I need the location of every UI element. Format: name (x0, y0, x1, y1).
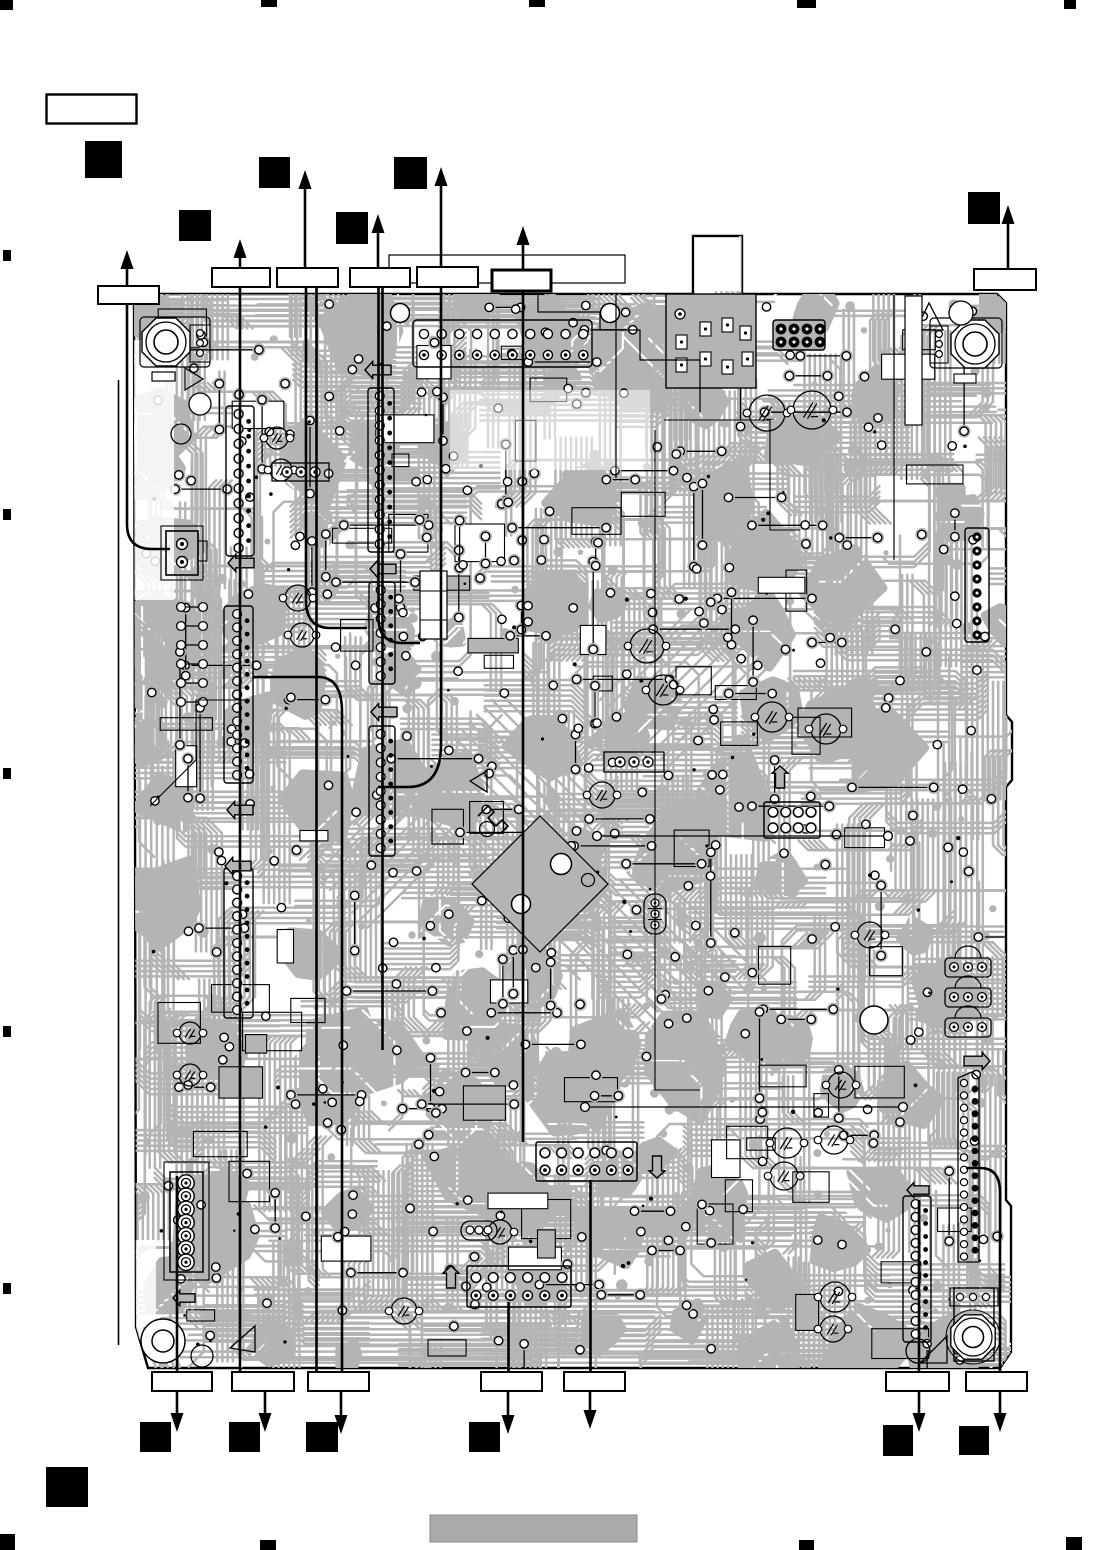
capacitor C17 (814, 1316, 852, 1342)
leader arrow up T5 (435, 167, 448, 267)
block arrow 8 (907, 1183, 929, 1198)
crop mark left-1 (3, 250, 11, 261)
callout box T7 (974, 269, 1036, 290)
pointer line T2 to B2 (239, 287, 242, 1372)
block arrow 9 (964, 1053, 990, 1070)
callout box B5 (564, 1372, 625, 1391)
IC U1 (rotated QFP) (472, 816, 608, 952)
block arrow 6 (365, 362, 391, 379)
callout box B2 (232, 1372, 294, 1391)
copper pour regions (98, 285, 1018, 1395)
hole bottom-right (906, 1339, 930, 1363)
connector CN10 (12p) (467, 1266, 571, 1307)
crop mark top-4 (797, 0, 816, 8)
connector CN201 (8p) (773, 320, 825, 350)
screw hole pad bottom-right (RCA jack) (946, 1288, 1000, 1364)
connector CN21 (3p dome) (945, 976, 991, 1007)
keepout rectangle right-center (905, 296, 922, 425)
capacitor C16 (814, 1282, 856, 1312)
connector CN12 right (903, 1196, 931, 1342)
corner hatch bottom-left (144, 1327, 180, 1368)
pad matrix left (177, 603, 208, 707)
crystal X1 (420, 571, 447, 639)
callout box T4 (350, 268, 410, 287)
leader arrow down B4 (502, 1391, 515, 1434)
block arrow 7 (173, 1291, 195, 1306)
crop mark bottom-4 (1066, 1537, 1082, 1550)
alignment square B1 (140, 1422, 171, 1452)
net boundary line 4 (664, 420, 800, 530)
board margin clear areas (134, 340, 650, 1340)
leader arrow up T6 (517, 226, 530, 270)
through-hole pad pairs (168, 301, 1026, 1429)
connector CN16 (3p vertical oval) (644, 894, 666, 934)
capacitor C2 (787, 391, 837, 429)
hole top-right (949, 301, 973, 325)
capacitor C22 (482, 1220, 518, 1244)
leader arrow down B6 (913, 1391, 926, 1432)
board outline (134, 236, 1012, 1368)
small diamond pad (542, 790, 562, 810)
connector CN105 (224, 868, 253, 1018)
connector CN9 (7p power) (164, 1162, 209, 1280)
capacitor C14 (814, 1126, 854, 1154)
pointer line T3a to CN4 (306, 287, 367, 628)
connector CN101 (2p) (161, 526, 207, 580)
capacitor C21 (822, 1072, 860, 1098)
clearance traces in pours (27, 240, 1120, 1425)
title box (empty) (47, 95, 137, 124)
connector CN8 (12p) (536, 1142, 637, 1181)
capacitor C13 (766, 1128, 808, 1158)
callout box B3 (308, 1372, 369, 1391)
callout box B1 (152, 1372, 212, 1391)
callout box T6 (492, 270, 551, 291)
connector CN13 (3p) (272, 463, 329, 481)
callout box T3 (277, 268, 338, 287)
connector CN4 (369, 582, 395, 684)
capacitor C12 (264, 459, 298, 481)
mounting hole mid-right (860, 1006, 888, 1034)
pointer triangle top-left (185, 368, 203, 390)
alignment square A1 (85, 141, 122, 178)
connector CN20 (3p dome) (945, 946, 991, 977)
pointer line B7 (966, 1168, 1000, 1372)
crop mark left-5 (3, 1283, 11, 1294)
crop mark top-5 (1064, 0, 1076, 9)
connector CN22 (3p dome) (945, 1006, 991, 1037)
pointer triangle bottom-left (230, 1326, 255, 1352)
block arrow 5 (371, 704, 397, 721)
pointer line T3b (315, 287, 318, 1372)
capacitor C7 (173, 1022, 207, 1044)
pointer line B3b (253, 677, 342, 1372)
leader arrow up T3 (299, 170, 312, 268)
crop mark top-2 (261, 0, 277, 7)
net boundary line 1 (538, 295, 700, 412)
net boundary line 6 (655, 430, 700, 1090)
silkscreen bar top-left (152, 372, 175, 381)
alignment square B4 (469, 1422, 500, 1452)
net boundary line 3 (615, 295, 617, 478)
callout box B7 (966, 1372, 1027, 1391)
capacitor C10 (284, 623, 320, 647)
alignment square B3 (306, 1422, 338, 1452)
block arrow 2 (227, 802, 253, 819)
callout box T5 (417, 267, 478, 287)
pointer line B5 to CN8 (589, 1180, 592, 1372)
connector CN5 (369, 726, 395, 856)
screw hole pad bottom-left (141, 1319, 213, 1367)
leader arrow down B7 (994, 1391, 1007, 1432)
smd pads (138, 299, 1002, 1360)
net boundary line 2 (893, 295, 895, 560)
connector CN103 (226, 406, 254, 556)
block arrow 11 (443, 1266, 459, 1288)
leader arrow down B3 (335, 1391, 348, 1434)
crop mark bottom-1 (0, 1534, 15, 1550)
pointer line T4 (379, 287, 421, 643)
jumper wire J2 (593, 832, 893, 841)
alignment square A3 (259, 157, 290, 188)
leader arrow down B5 (584, 1391, 597, 1429)
capacitor C3 (624, 629, 670, 663)
pointer triangle center (470, 771, 487, 792)
capacitor C1 (743, 395, 791, 431)
callout box B4 (481, 1372, 542, 1391)
mounting hole top B (601, 304, 620, 323)
crop mark bottom-2 (260, 1540, 276, 1550)
capacitor C11 (260, 427, 294, 449)
net boundary line 5 (150, 700, 250, 806)
screw hole pad top-right (930, 318, 1002, 368)
pointer triangle top-right (916, 303, 943, 330)
auxiliary left board line (118, 380, 120, 1345)
crop mark left-4 (3, 1026, 11, 1037)
leader arrow up T1 (121, 250, 134, 286)
antenna jack protrusion (keepout) (694, 237, 740, 291)
block arrow 3 (225, 858, 251, 875)
capacitor C18 (385, 1298, 423, 1324)
alignment square A2 (179, 210, 211, 241)
alignment square A6 (968, 192, 1000, 224)
pointer line B4 to CN10 (507, 1302, 510, 1372)
leader arrow up T7 (1002, 205, 1015, 269)
alignment square A5 (394, 157, 427, 189)
capacitor C20 (851, 922, 889, 948)
jumper wire J1 (581, 1103, 908, 1112)
connector CN3 (368, 388, 394, 552)
silkscreen bar top-right (954, 374, 976, 383)
crop mark bottom-3 (799, 1540, 814, 1550)
pointer triangle bottom-right (920, 1336, 947, 1363)
pin-1 dots (152, 323, 982, 1346)
capacitor C9 (279, 585, 317, 611)
shield outline rectangle above board edge (389, 255, 625, 283)
block arrow 10 (772, 766, 788, 788)
crop mark left-2 (3, 509, 11, 520)
screw hole pad top-left (140, 317, 210, 367)
leader arrow up T4 (372, 214, 385, 268)
pointer line T6 to CN8 (522, 291, 525, 1142)
capacitor C15 (764, 1162, 804, 1190)
alignment square B2 (229, 1422, 260, 1452)
capacitor C19 (583, 782, 621, 808)
block arrow 4 (370, 561, 396, 578)
connector CN15 (3p oval) (461, 1221, 497, 1240)
connector CN301 pad strip (413, 320, 592, 367)
mounting hole top A (391, 304, 410, 323)
capacitor C5 (751, 702, 793, 732)
crop mark top-1 (0, 0, 13, 10)
tuner block U101 (666, 294, 756, 388)
connector CN104 (224, 606, 253, 783)
leader arrow down B1 (171, 1391, 184, 1432)
block arrow 1 (228, 555, 254, 572)
pointer line B6 to CN12 (918, 1200, 921, 1372)
capacitor C4 (642, 675, 684, 705)
leader arrow up T2 (234, 239, 247, 268)
crop mark top-3 (529, 0, 545, 7)
crop mark left-3 (3, 768, 11, 779)
callout box T2 (212, 268, 270, 287)
pointer line T1 to CN101 (127, 304, 170, 549)
connector CN7 (right edge, long) (958, 1072, 979, 1262)
alignment square B7 (46, 1467, 88, 1507)
hole top-left (189, 393, 211, 415)
alignment square B5 (883, 1425, 913, 1456)
callout box B6 (886, 1372, 949, 1391)
pointer line T5 to CN4 (378, 287, 441, 787)
block arrow 12 (649, 1156, 665, 1178)
hole top-left 2 (171, 424, 191, 444)
pointer line T4b (381, 287, 384, 1050)
alignment square B6 (959, 1426, 989, 1455)
connector CN6 (right edge, 8p) (965, 528, 989, 642)
connector CN11 (8p) (764, 802, 820, 838)
component outlines (158, 309, 971, 1359)
alignment square A4 (336, 212, 368, 244)
connector CN14 (3p) (604, 752, 664, 772)
registered trademark squiggle (478, 806, 508, 837)
pointer line B1 to CN9 (176, 1176, 179, 1372)
capacitor C6 (805, 714, 847, 744)
callout box T1 (98, 286, 159, 304)
leader arrow down B2 (259, 1391, 272, 1432)
capacitor C8 (173, 1064, 207, 1086)
part-number band (gray) (430, 1515, 637, 1542)
vias (140, 298, 1004, 1357)
